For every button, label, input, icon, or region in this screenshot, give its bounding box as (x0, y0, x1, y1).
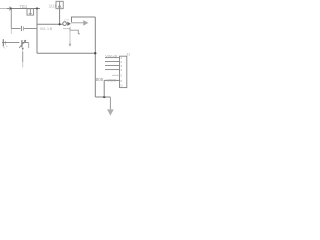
svg-text:VW+B: VW+B (105, 55, 117, 59)
wire Q1 emitter down (22, 51, 24, 62)
wire stub down (69, 30, 71, 41)
node C junction dot (59, 23, 61, 25)
pin 3 (105, 65, 120, 67)
svg-text:1U1: 1U1 (49, 3, 57, 8)
transistor Q1 (19, 40, 29, 51)
wire pin5 down (103, 80, 105, 97)
wire bottom horizontal (37, 52, 95, 54)
wire pin5 horizontal (104, 79, 119, 81)
wire switch up right (72, 17, 96, 22)
wire Q1 collector corner (28, 43, 30, 49)
node E junction dot (103, 96, 105, 98)
wire stub staircase (70, 27, 80, 34)
battery BT1 plates (2, 39, 4, 46)
wire stub arrowhead (69, 42, 71, 45)
wire left vertical (10, 9, 12, 29)
fuse F1 (27, 9, 34, 15)
pin numbers (120, 56, 123, 88)
wire right vertical (94, 17, 96, 97)
ground arrow head (107, 109, 114, 115)
svg-text:WB08: WB08 (107, 79, 116, 83)
battery noise marks (3, 46, 7, 49)
wire to off-page arrow (71, 22, 84, 24)
switch SW1 contact circle (63, 22, 67, 26)
component U1 box (56, 1, 63, 8)
svg-text:B08: B08 (96, 77, 104, 82)
wire bottom right corner (95, 96, 110, 98)
svg-text:6: 6 (120, 79, 122, 83)
pin 4 (105, 69, 120, 71)
connector J1 box (120, 56, 127, 87)
pin 1 (105, 57, 120, 59)
svg-text:G: G (120, 84, 123, 88)
svg-text:C7: C7 (65, 19, 69, 23)
node A junction dot (10, 7, 12, 9)
off-page arrow right (83, 20, 88, 26)
node D junction dot (94, 52, 96, 54)
wire row y24 (37, 23, 63, 25)
switch underline (63, 28, 70, 30)
wire U1 down (59, 9, 61, 25)
ground arrow stem (109, 97, 111, 110)
wire top feed (0, 8, 7, 10)
svg-text:J1: J1 (126, 53, 130, 57)
switch SW1 arrow (67, 22, 71, 26)
wire battery to Q1 (2, 42, 19, 44)
pin 2 (105, 61, 120, 63)
svg-text:ML1B: ML1B (40, 26, 52, 31)
svg-text:4: 4 (120, 68, 122, 72)
node B junction dot (36, 7, 38, 9)
pin 6 short (112, 74, 120, 76)
svg-text:5: 5 (120, 74, 122, 78)
capacitor C1 (11, 28, 20, 30)
wire mid vertical (36, 9, 38, 54)
